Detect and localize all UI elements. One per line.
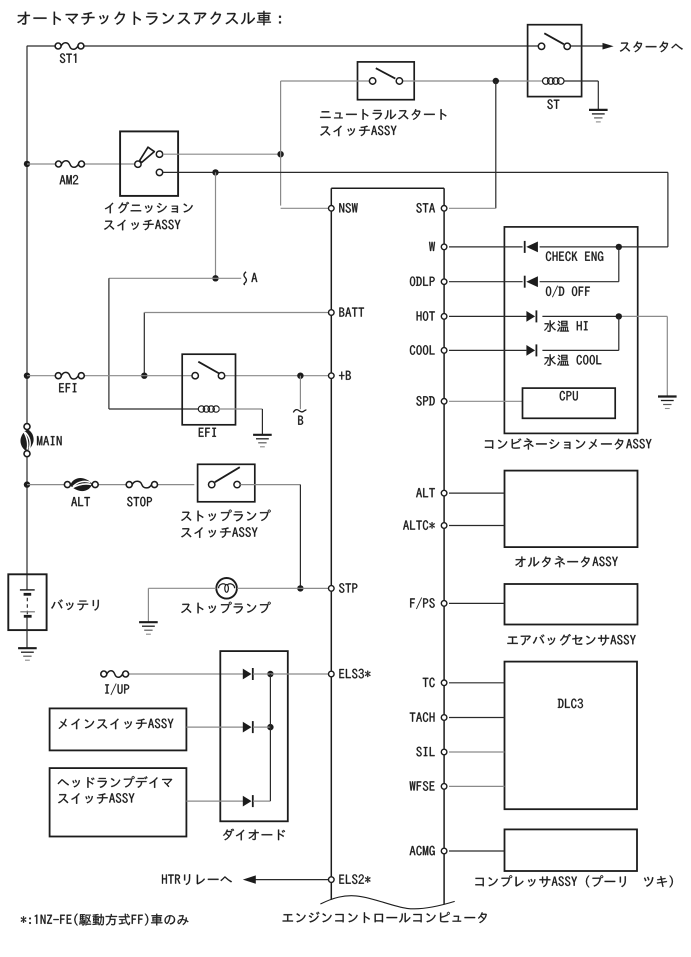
wire SIL row [449, 751, 505, 753]
wire TC row [449, 682, 505, 684]
label stop lamp switch line1 [181, 510, 271, 522]
pin W [429, 242, 447, 251]
pin ACMG [410, 846, 447, 856]
label IUP [105, 684, 129, 696]
label combination meter [485, 438, 652, 449]
pin ALT [416, 488, 447, 497]
node ALT junction [24, 481, 30, 487]
switch neutral start box [358, 62, 415, 100]
wire left bus vertical [26, 46, 28, 575]
node AM2 junction [24, 161, 30, 167]
connector break A [244, 272, 246, 285]
wire IUP row [129, 673, 246, 675]
diode D1 [243, 668, 253, 680]
box main switch assy [50, 708, 187, 750]
label EFI fuse [59, 383, 76, 392]
label alternator [515, 556, 618, 567]
wire ALT row [27, 484, 194, 486]
label STOP [127, 497, 152, 507]
relay EFI box [182, 354, 235, 425]
switch neutral contacts [369, 78, 402, 84]
pin WFSE [410, 781, 447, 791]
note asterisk [21, 914, 189, 926]
pin ALTC* [403, 520, 447, 530]
label starter heading [620, 41, 683, 52]
fuse STOP [126, 481, 157, 488]
switch stop lamp box [198, 464, 255, 502]
battery box [8, 574, 46, 630]
label battery [51, 599, 99, 610]
label HTR relay heading [162, 874, 232, 885]
wire stop switch to STP [240, 485, 300, 589]
wire +B row [27, 375, 329, 377]
title text [17, 11, 281, 25]
wire EFI coil to ground [219, 409, 263, 435]
pin NSW [329, 203, 358, 213]
switch ignition box [120, 131, 178, 196]
label AM2 [60, 175, 79, 184]
arrow to starter [603, 43, 614, 50]
wire BATT riser [144, 313, 328, 376]
wire W row [449, 246, 668, 248]
diode HOT [526, 310, 536, 322]
wire A drop [215, 172, 217, 278]
label headlamp dimmer line2 [58, 793, 134, 804]
label ST [547, 99, 559, 109]
label water temp HI [544, 320, 587, 331]
switch ignition contacts [156, 151, 162, 176]
ground ST [589, 110, 608, 122]
label B [298, 416, 303, 425]
node +B junction [297, 373, 303, 379]
wire IG2 contact to riser [163, 153, 281, 155]
label main switch assy [59, 719, 174, 730]
fuse IUP [101, 671, 129, 678]
LED O/D OFF [525, 276, 538, 288]
node IG2 riser junction [277, 151, 283, 157]
label compressor [475, 875, 673, 887]
box headlamp dimmer assy [50, 768, 187, 836]
fuse AM2 [56, 161, 85, 168]
wire headlamp to D3 [186, 800, 245, 802]
connector break B [293, 410, 306, 413]
relay ST switch contacts [538, 43, 570, 49]
wire lamp left to ground [148, 588, 216, 622]
node STA riser junction [493, 78, 499, 84]
diode box [220, 651, 287, 821]
wire F/PS row [449, 602, 505, 604]
switch ignition key wedge [140, 147, 155, 162]
wire TACH row [449, 717, 505, 719]
label ECU [283, 912, 487, 923]
lamp stop lamp [216, 578, 237, 599]
diode D3 [243, 795, 253, 807]
diode COOL [526, 344, 536, 356]
DLC3 box [505, 662, 638, 810]
label CPU [560, 391, 578, 401]
fusible link MAIN [20, 424, 33, 457]
ground EFI relay [253, 435, 272, 447]
LED CHECK ENG [525, 241, 538, 253]
pin +B [329, 371, 351, 380]
arrow to HTR relay [243, 875, 256, 883]
node lamp junction 1 [616, 244, 622, 250]
wire battery top [26, 574, 28, 590]
wire B drop [299, 376, 301, 410]
relay EFI coil [198, 406, 219, 412]
wire SPD row [449, 400, 523, 402]
wire ALTC row [449, 525, 505, 527]
compressor box [505, 829, 638, 871]
battery plates [20, 590, 35, 616]
pin TC [423, 678, 447, 688]
pin STP [329, 583, 358, 593]
pin COOL [410, 345, 447, 355]
node BATT junction [141, 373, 147, 379]
node STP junction [297, 585, 303, 591]
pin BATT [329, 308, 365, 317]
wire STP to pin [300, 587, 328, 589]
wire WFSE row [449, 785, 505, 787]
relay EFI switch arm [198, 362, 220, 374]
label diode box [223, 829, 285, 841]
label neutral line2 [320, 126, 396, 137]
wire battery bottom [26, 616, 28, 648]
wire IG1 long run [163, 172, 668, 247]
node D1 junction [267, 671, 273, 677]
node A-branch junction [212, 169, 218, 175]
label ALT [71, 497, 90, 506]
label O/D OFF [546, 286, 590, 298]
wire lamp bus 2 [618, 316, 620, 350]
label stop lamp switch line2 [181, 527, 257, 538]
wire D1 to ELS3 [253, 673, 329, 675]
wire lamp right [237, 587, 301, 589]
label CHECK ENG [546, 251, 603, 261]
relay ST coil [530, 78, 598, 85]
ECU box wavy bottom [320, 896, 454, 909]
relay EFI contacts [192, 373, 225, 379]
wire STA riser [449, 81, 496, 208]
wire COOL row [449, 349, 619, 351]
pin STA [416, 203, 447, 213]
node lamp junction 2 [616, 313, 622, 319]
wire riser to NSW [281, 81, 329, 208]
wire lamp bus 1 [618, 247, 620, 282]
label ignition switch line1 [105, 202, 193, 213]
node D2 junction [267, 724, 273, 730]
relay ST box [528, 25, 582, 97]
label A [251, 273, 257, 282]
wire ST coil to ground [597, 81, 599, 110]
switch ignition pivot contact [135, 161, 141, 167]
label DLC3 [558, 699, 583, 709]
label headlamp dimmer line1 [58, 776, 173, 788]
wire neutral right to coil [403, 80, 531, 82]
switch neutral arm [376, 68, 396, 78]
label water temp COOL [544, 354, 601, 365]
label ignition switch line2 [104, 220, 180, 231]
ground stop lamp [139, 622, 158, 634]
pin ODLP [410, 277, 447, 287]
wire ALT row [449, 492, 505, 494]
fusible link ALT [64, 478, 98, 491]
wire ODLP row [449, 281, 619, 283]
node A junction [212, 275, 218, 281]
wire ST switch to arrow [570, 45, 602, 47]
combination meter box [504, 227, 637, 434]
pin TACH [410, 712, 447, 722]
wire AM2 row [27, 163, 135, 165]
alternator box [505, 471, 638, 547]
ECU box sides [331, 188, 444, 904]
CPU box [523, 388, 616, 418]
ground battery [18, 648, 37, 660]
diode D2 [243, 721, 253, 733]
pin SIL [416, 747, 447, 757]
pin ELS2* [329, 874, 371, 884]
wire A to EFI coil [109, 278, 216, 409]
label airbag sensor [507, 634, 635, 646]
pin SPD [416, 396, 447, 406]
pin F/PS [410, 598, 447, 610]
switch stop lamp contacts [209, 481, 241, 487]
wire meter to ground [666, 316, 668, 396]
wire diode bus vertical [253, 674, 271, 801]
wire top ST1 row [27, 45, 539, 47]
ground combination meter [658, 397, 677, 409]
fuse ST1 [55, 43, 84, 50]
label neutral line1 [320, 109, 446, 120]
wire HTR to ELS2 [255, 879, 329, 881]
wire ACMG row [449, 850, 505, 852]
wire A stub [216, 277, 242, 279]
wire neutral left [281, 80, 370, 82]
pin HOT [417, 311, 447, 321]
label EFI relay [199, 428, 216, 437]
wire main switch to D2 [186, 726, 245, 728]
relay ST switch arm [544, 33, 564, 44]
pin ELS3* [329, 669, 371, 679]
airbag sensor box [505, 584, 638, 625]
node EFI junction [24, 373, 30, 379]
switch stop lamp arm [215, 467, 240, 482]
fuse EFI [55, 372, 84, 379]
label ST1 [60, 53, 76, 63]
wire HOT row [449, 315, 667, 317]
label stop lamp [181, 602, 271, 614]
label MAIN [37, 436, 62, 445]
